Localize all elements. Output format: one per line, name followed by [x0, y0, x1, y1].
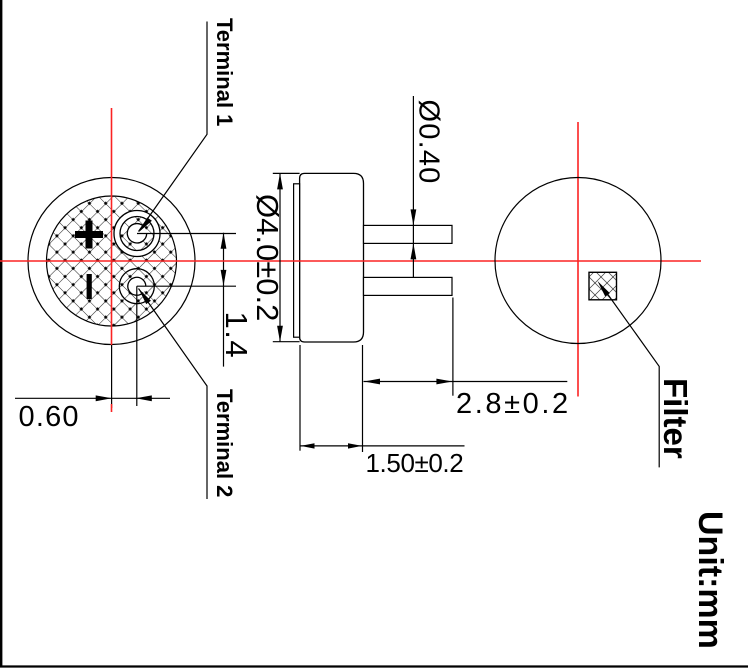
svg-text:2.8±0.2: 2.8±0.2 [456, 388, 571, 420]
svg-text:Unit:mm: Unit:mm [691, 511, 729, 649]
svg-text:0.60: 0.60 [19, 401, 80, 433]
svg-text:Ø4.0±0.2: Ø4.0±0.2 [250, 194, 285, 321]
svg-text:1.50±0.2: 1.50±0.2 [366, 448, 464, 478]
svg-text:Filter: Filter [657, 378, 694, 459]
svg-text:1.4: 1.4 [219, 312, 254, 360]
svg-text:Terminal 2: Terminal 2 [212, 389, 237, 497]
svg-text:Ø0.40: Ø0.40 [413, 100, 445, 185]
svg-text:Terminal 1: Terminal 1 [212, 18, 237, 126]
